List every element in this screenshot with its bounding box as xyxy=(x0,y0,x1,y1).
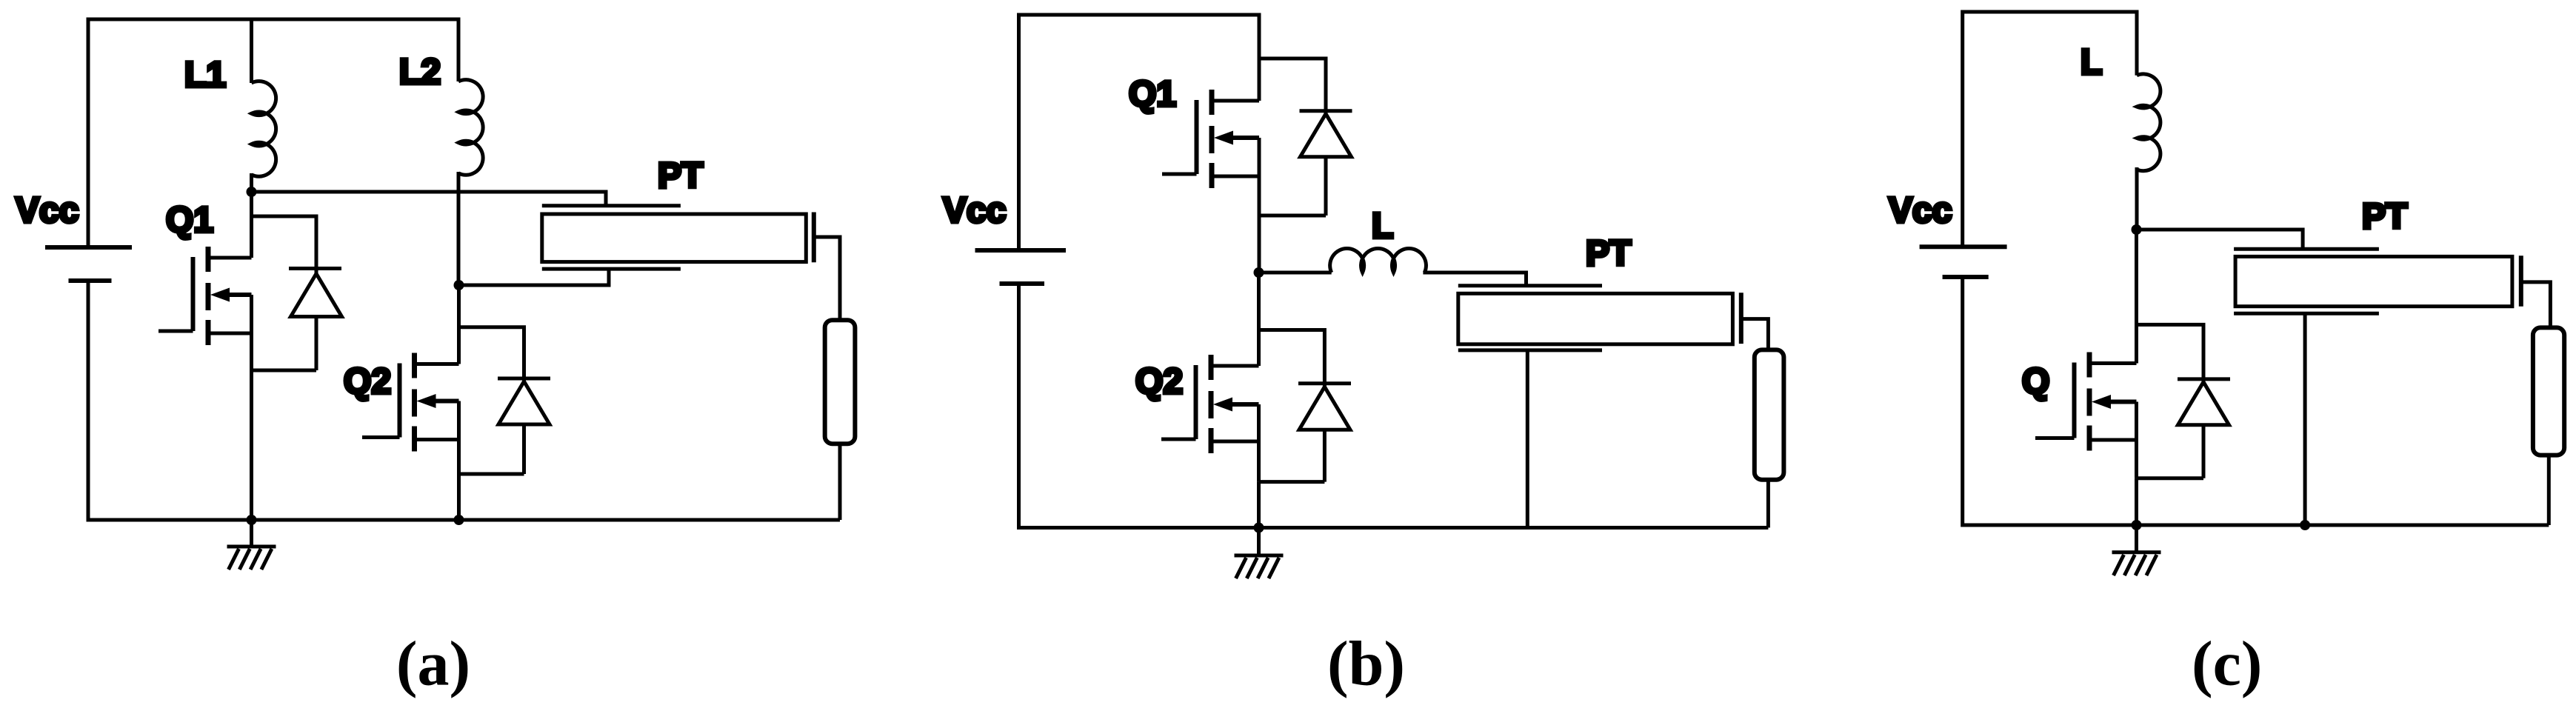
inductor L1 xyxy=(252,81,276,177)
node junction c xyxy=(2132,224,2142,235)
svg-text:L2: L2 xyxy=(399,53,441,92)
svg-text:Q1: Q1 xyxy=(166,201,213,240)
ground symbol a xyxy=(227,520,276,570)
wire Q1 drain to diode D1 b xyxy=(1259,59,1326,114)
svg-text:Vcc: Vcc xyxy=(16,191,79,230)
battery Vcc c xyxy=(1920,247,2007,277)
wire PT output electrode to bottom rail c xyxy=(2303,313,2307,525)
wire inductor L to PT input b xyxy=(1423,273,1526,287)
svg-text:PT: PT xyxy=(658,156,703,196)
diode D (c) xyxy=(2178,379,2230,478)
diode D1 (a) xyxy=(289,269,342,371)
wire node B to Q2 drain xyxy=(457,285,461,364)
battery Vcc a xyxy=(45,247,132,281)
wire bottom rail a xyxy=(88,518,840,522)
node A junction xyxy=(247,187,257,197)
load resistor c xyxy=(2533,327,2564,455)
wire node A to Q1 drain xyxy=(250,192,253,258)
wire load resistor to bottom rail a xyxy=(838,444,842,520)
wire Q1 drain to diode D1 xyxy=(252,216,317,274)
piezoelectric transformer PT (b) xyxy=(1458,286,1769,351)
wire load resistor to bottom rail b xyxy=(1766,478,1770,528)
wire node B to PT input bottom xyxy=(459,267,610,285)
wire Q1 source to node b xyxy=(1258,216,1261,273)
wire Q2 source to ground rail xyxy=(457,474,461,520)
wire Q2 source to ground rail b xyxy=(1257,482,1261,528)
svg-text:PT: PT xyxy=(1586,234,1631,273)
wire node to PT input c xyxy=(2137,230,2303,250)
ground node junction a xyxy=(247,515,257,525)
wire node A to PT input top xyxy=(252,192,607,207)
wire Q2 source to diode D2 anode xyxy=(459,472,524,476)
wire battery negative lead b xyxy=(1017,284,1021,530)
ground symbol c xyxy=(2112,525,2161,575)
node junction b xyxy=(1254,267,1264,278)
ground symbol b xyxy=(1235,528,1284,579)
piezoelectric transformer PT (c) xyxy=(2234,249,2550,329)
load resistor b xyxy=(1755,350,1784,479)
wire Q1 drain feed b xyxy=(1258,13,1261,101)
svg-text:L1: L1 xyxy=(184,56,226,95)
wire top rail c xyxy=(1963,10,2137,14)
inductor L2 xyxy=(458,80,483,176)
wire L1 to node A xyxy=(250,173,253,192)
svg-text:Vcc: Vcc xyxy=(1889,191,1952,230)
wire bottom rail c xyxy=(1963,524,2549,527)
wire L2 stem top xyxy=(457,18,461,82)
svg-text:L: L xyxy=(1372,207,1393,246)
diode D2 (a) xyxy=(498,378,550,474)
wire L stem top c xyxy=(2135,10,2139,76)
wire PT output electrode to bottom rail b xyxy=(1526,350,1529,528)
svg-text:(c): (c) xyxy=(2192,628,2262,699)
wire Q drain to diode D c xyxy=(2137,324,2204,381)
transistor Q1 (b) xyxy=(1162,90,1259,216)
wire bottom rail b xyxy=(1019,526,1769,530)
diode D1 (b) xyxy=(1300,111,1352,216)
wire battery positive lead a xyxy=(87,18,90,248)
wire Q2 drain to diode D2 b xyxy=(1259,330,1325,387)
wire battery negative lead a xyxy=(87,281,90,522)
wire L1 stem top xyxy=(250,18,253,84)
svg-text:Q1: Q1 xyxy=(1129,75,1176,114)
wire battery positive lead c xyxy=(1961,10,1964,247)
battery Vcc b xyxy=(975,250,1067,284)
svg-text:(a): (a) xyxy=(396,628,470,699)
wire Q2 source to diode D2 anode b xyxy=(1259,480,1325,484)
node B junction xyxy=(454,280,464,290)
wire node to Q drain c xyxy=(2135,230,2138,364)
wire Q2 drain to diode D2 xyxy=(459,327,524,381)
svg-text:Q: Q xyxy=(2022,362,2049,401)
svg-text:Vcc: Vcc xyxy=(943,191,1006,230)
svg-text:Q2: Q2 xyxy=(1135,362,1183,401)
wire Q1 source to diode D1 anode xyxy=(252,369,317,373)
inductor L (c) xyxy=(2137,74,2160,171)
transistor Q1 (a) xyxy=(159,247,252,370)
svg-text:(b): (b) xyxy=(1327,628,1405,699)
wire Q source to ground rail c xyxy=(2135,478,2138,525)
transistor Q2 (b) xyxy=(1161,355,1259,482)
wire battery positive lead b xyxy=(1017,13,1021,251)
wire Q1 source to diode D1 anode b xyxy=(1259,214,1326,218)
transistor Q2 (a) xyxy=(362,353,459,475)
wire node to inductor L b xyxy=(1259,271,1332,275)
svg-text:PT: PT xyxy=(2362,197,2407,236)
wire L to node c xyxy=(2135,167,2139,230)
ground node junction c xyxy=(2132,520,2142,530)
svg-text:Q2: Q2 xyxy=(344,362,391,401)
wire load resistor to bottom rail c xyxy=(2547,454,2551,525)
node PT output ground junction c xyxy=(2300,520,2310,530)
ground node junction b xyxy=(1254,523,1264,533)
wire Q source to diode D anode c xyxy=(2137,476,2204,480)
piezoelectric transformer PT (a) xyxy=(542,206,840,321)
load resistor a xyxy=(825,320,855,444)
wire L2 to node B xyxy=(457,172,461,285)
wire node to Q2 drain b xyxy=(1257,273,1261,366)
wire top rail a xyxy=(88,18,458,21)
svg-text:L: L xyxy=(2081,43,2102,82)
inductor L (b) xyxy=(1330,249,1427,273)
wire Q1 source to ground rail xyxy=(250,370,253,520)
wire battery negative lead c xyxy=(1961,277,1964,527)
transistor Q (c) xyxy=(2035,353,2137,478)
wire top rail b xyxy=(1019,13,1260,17)
node Q2 ground junction xyxy=(454,515,464,525)
diode D2 (b) xyxy=(1298,384,1351,482)
